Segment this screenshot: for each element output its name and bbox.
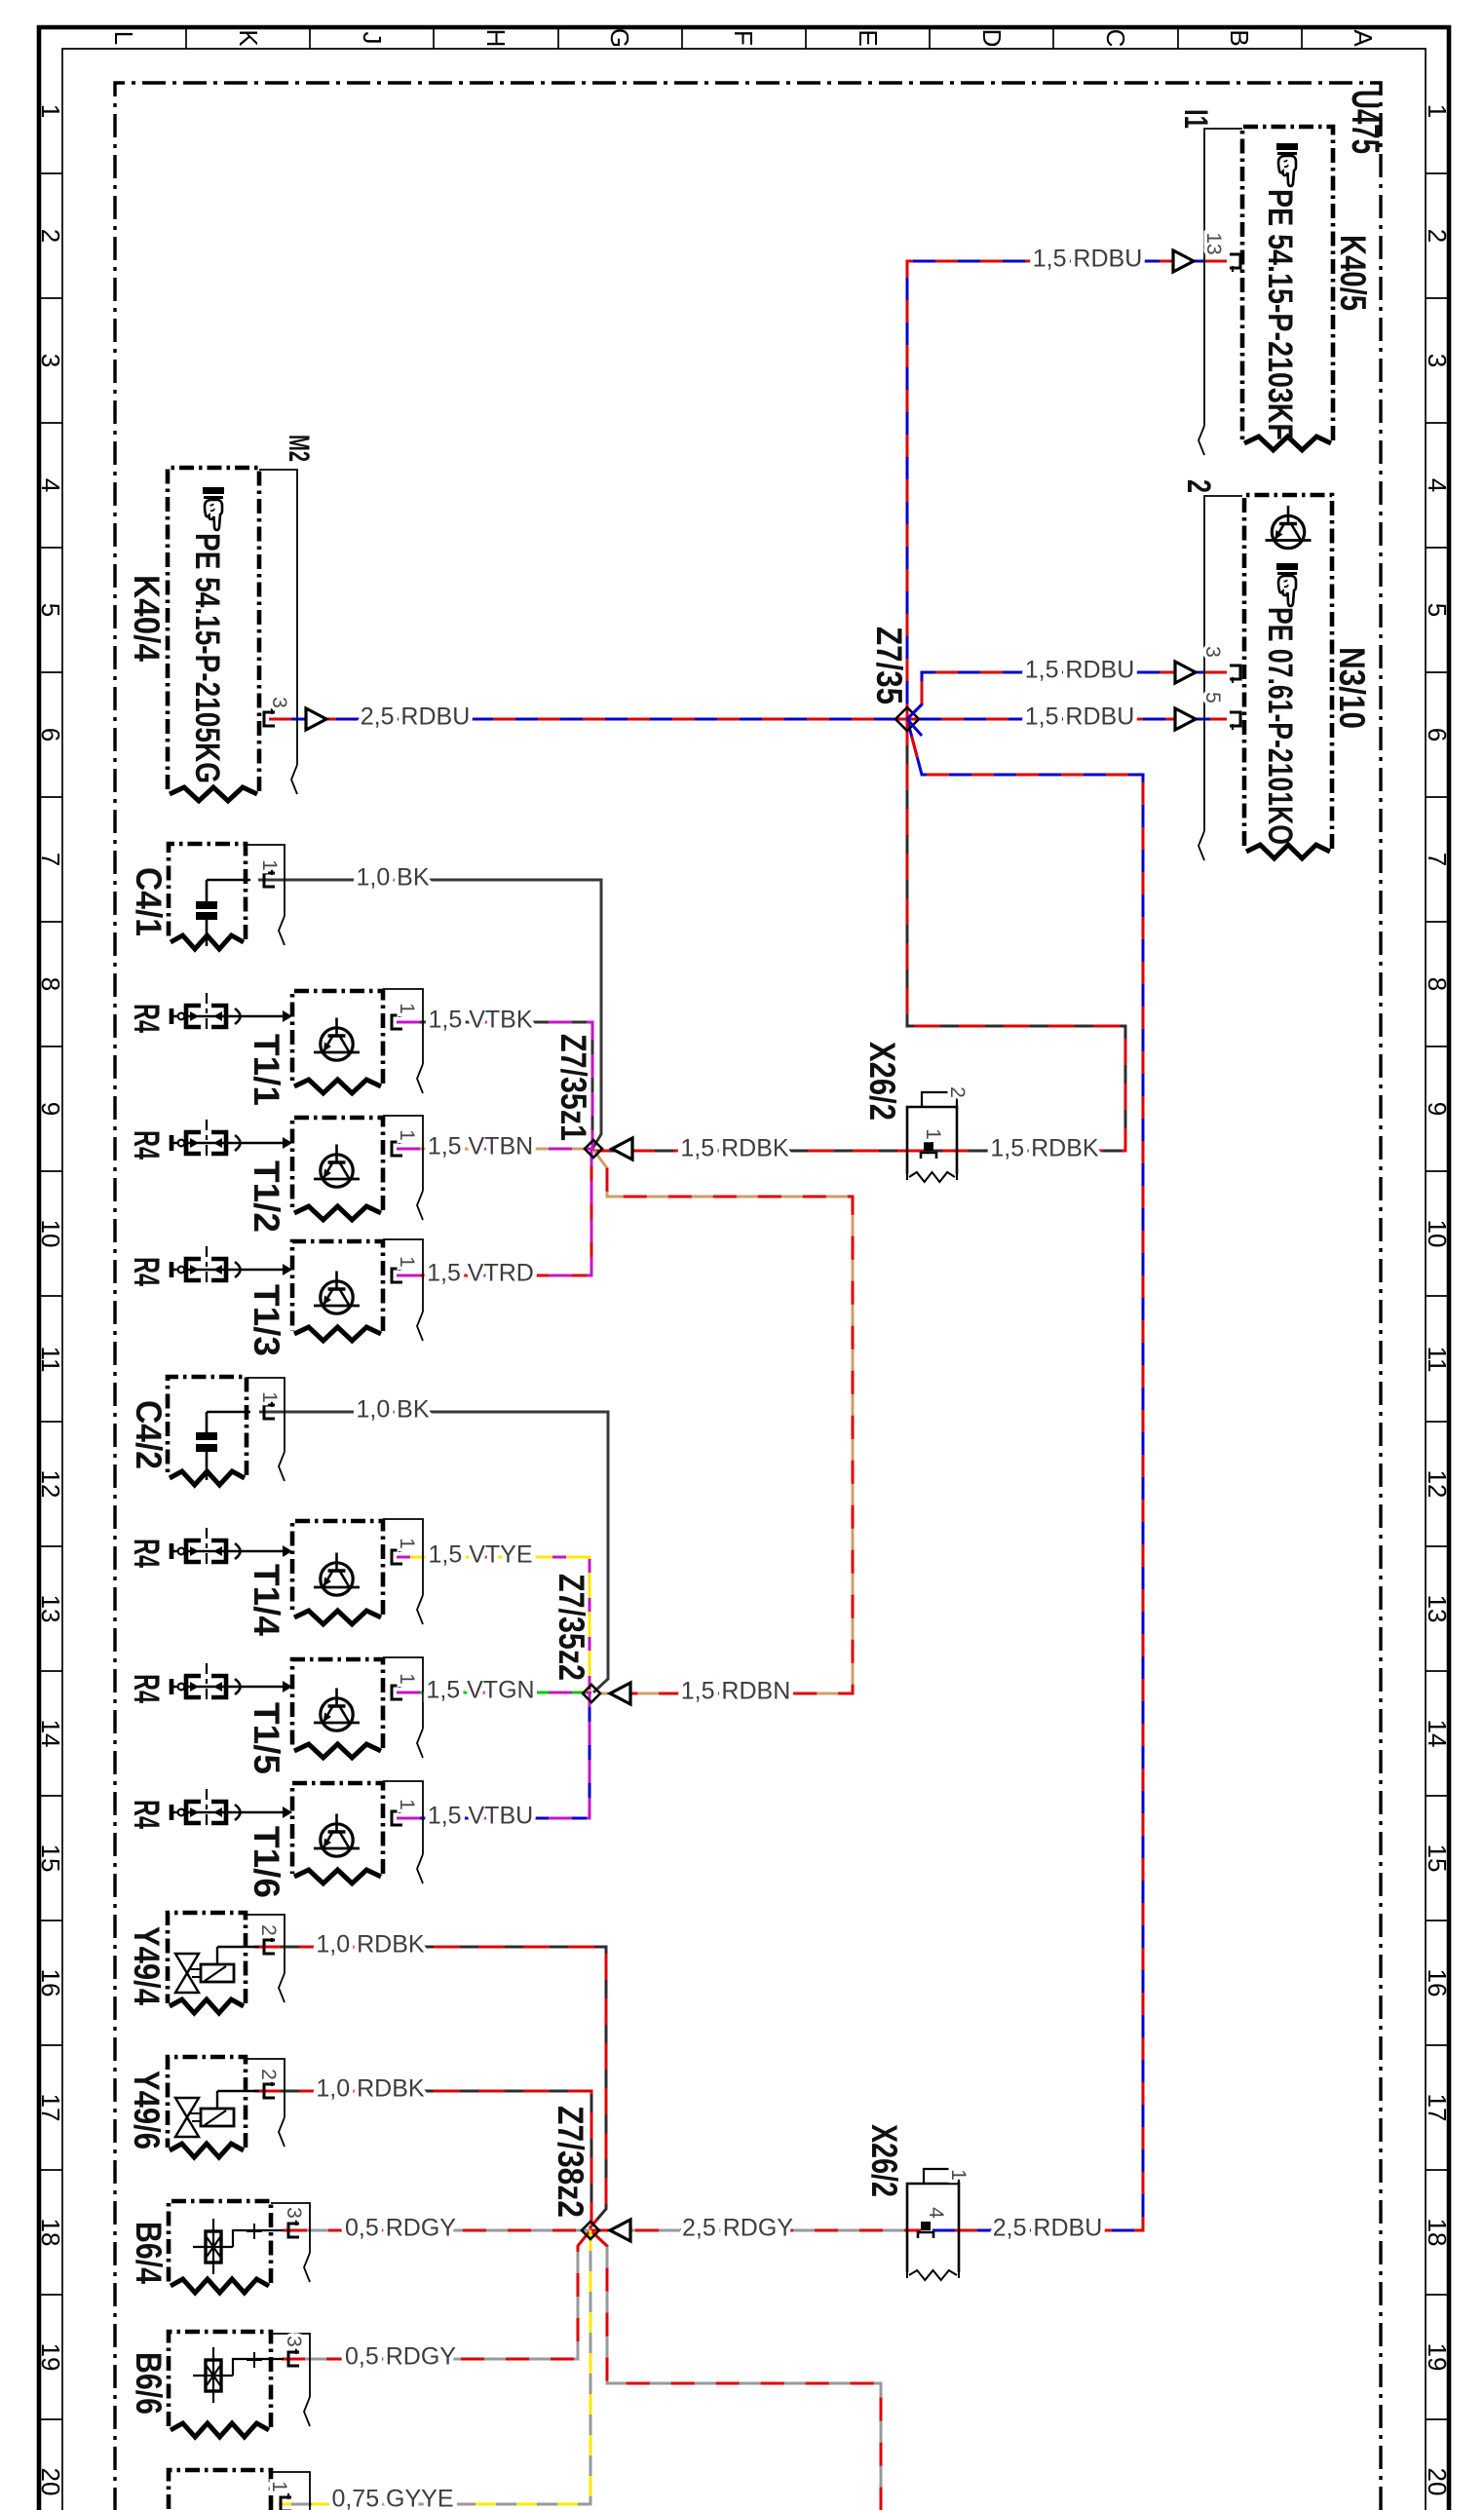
connector X26/2 (lower run) — [907, 2169, 959, 2272]
wire 1,5 RDBU K40/5 pin13 to Z7/35 — [907, 261, 1227, 719]
svg-text:14: 14 — [36, 1720, 65, 1748]
wire 0,5 RDGY B6/6 to Z7/38z2 — [282, 2231, 590, 2359]
wire 1,0 RDBK Y49/6 to Z7/38z2 — [254, 2091, 591, 2224]
svg-text:G: G — [605, 28, 634, 48]
svg-text:PE 54.15-P-2103KF: PE 54.15-P-2103KF — [1261, 189, 1299, 440]
wire 1,5 RDBU Z7/35 to N3/10 pin3 — [907, 672, 1227, 719]
svg-text:6: 6 — [36, 728, 65, 742]
hand icon K40/5 — [1276, 143, 1298, 186]
svg-text:1,5 VTGN: 1,5 VTGN — [426, 1677, 534, 1704]
hand icon K40/4 — [203, 487, 224, 530]
wire 1,5 VTBU T1/6 to Z7/35z2 — [397, 1693, 590, 1818]
svg-text:Z7/35: Z7/35 — [869, 627, 909, 704]
svg-text:11: 11 — [1423, 1347, 1452, 1373]
svg-text:1,0 BK: 1,0 BK — [356, 1396, 429, 1424]
control unit N3/10 box — [1244, 495, 1332, 858]
T1/6 connector bar — [383, 1781, 423, 1883]
svg-text:7: 7 — [1423, 853, 1452, 866]
C4/2 connector bar — [247, 1378, 285, 1481]
svg-text:I1: I1 — [1177, 109, 1214, 129]
wire 1,0 RDBK Y49/4 to Z7/38z2 — [254, 1947, 606, 2228]
pin 1 T1/3 — [392, 1265, 402, 1282]
Z7/35 branch stubs — [907, 704, 922, 736]
svg-text:11: 11 — [36, 1347, 65, 1373]
ignition coil T1/5 box — [292, 1659, 383, 1758]
capacitor symbol C4/1 — [196, 880, 250, 946]
connector X26/2 (upper run) — [907, 1092, 957, 1174]
partial component box at page edge — [169, 2470, 310, 2510]
svg-text:X26/2: X26/2 — [864, 2124, 904, 2197]
svg-text:R4: R4 — [127, 1257, 167, 1286]
svg-text:1,5 RDBU: 1,5 RDBU — [1033, 246, 1143, 273]
svg-text:3: 3 — [1423, 354, 1452, 367]
pin 3 K40/4 — [264, 708, 275, 726]
svg-text:4: 4 — [36, 478, 65, 492]
svg-text:2,5 RDGY: 2,5 RDGY — [682, 2215, 793, 2242]
svg-text:3: 3 — [36, 354, 65, 367]
svg-text:1,5 VTBK: 1,5 VTBK — [429, 1007, 533, 1034]
capacitor symbol C4/2 — [196, 1412, 250, 1480]
svg-text:1,5 RDBN: 1,5 RDBN — [681, 1678, 791, 1705]
svg-text:1,0 BK: 1,0 BK — [356, 864, 429, 892]
svg-text:X26/2: X26/2 — [862, 1042, 902, 1121]
svg-text:8: 8 — [1423, 977, 1452, 991]
coil electronics symbol T1/3 — [314, 1272, 360, 1314]
svg-text:1: 1 — [922, 1128, 944, 1140]
svg-text:2,5 RDBU: 2,5 RDBU — [993, 2215, 1103, 2242]
pin 3 B6/6 — [288, 2348, 299, 2366]
coil electronics symbol T1/1 — [314, 1018, 360, 1061]
svg-text:1,5 VTBN: 1,5 VTBN — [428, 1133, 533, 1160]
spark plug R4 at T1/5 — [171, 1663, 292, 1699]
svg-text:F: F — [729, 30, 758, 46]
K40/4 connector bar M2 — [259, 470, 297, 794]
splice Z7/35z2 — [583, 1685, 600, 1702]
pin 1 T1/5 — [392, 1682, 402, 1699]
svg-text:9: 9 — [36, 1102, 65, 1116]
arrow above Z7/38z2 — [610, 2220, 630, 2241]
svg-text:1: 1 — [396, 1129, 418, 1141]
pin 3 N3/10 — [1230, 666, 1240, 683]
svg-text:R4: R4 — [127, 1800, 167, 1829]
pin 1 T1/6 — [392, 1807, 402, 1825]
sensor symbol B6/4 — [193, 2219, 284, 2274]
Y49/6 connector bar — [246, 2059, 285, 2147]
svg-text:0,5 RDGY: 0,5 RDGY — [345, 2343, 456, 2371]
svg-text:4: 4 — [925, 2207, 947, 2219]
svg-text:19: 19 — [36, 2343, 65, 2372]
svg-text:2: 2 — [257, 2069, 280, 2080]
svg-text:T1/1: T1/1 — [247, 1034, 286, 1106]
C4/1 connector bar — [246, 845, 285, 945]
splice Z7/35z1 — [585, 1140, 602, 1158]
pin 2 Y49/4 — [264, 1936, 275, 1954]
Y49/4 connector bar — [246, 1915, 285, 2002]
arrow on N3/10 pin5 wire — [1175, 708, 1196, 730]
wire 0,75 GYYE Z7/38z2 to bottom component — [279, 2230, 590, 2504]
svg-text:1,5 RDBU: 1,5 RDBU — [1025, 704, 1135, 731]
svg-text:1,5 VTBU: 1,5 VTBU — [428, 1803, 533, 1830]
wire 2,5 RDBU K40/4 pin3 to N3/10 pin5 — [269, 718, 1227, 721]
wire 1,5 RDBN Z7/35z2 to Z7/35z1 — [594, 1151, 853, 1693]
spark plug R4 at T1/2 — [171, 1120, 292, 1156]
svg-text:2: 2 — [36, 229, 65, 243]
coil electronics symbol T1/2 — [314, 1145, 360, 1188]
svg-text:16: 16 — [1423, 1969, 1452, 1997]
svg-text:Y49/6: Y49/6 — [127, 2071, 167, 2149]
svg-text:K: K — [234, 29, 263, 47]
svg-text:3: 3 — [268, 697, 290, 708]
svg-text:15: 15 — [1423, 1844, 1452, 1873]
svg-text:4: 4 — [1423, 478, 1452, 492]
svg-text:20: 20 — [1423, 2468, 1452, 2496]
solenoid valve Y49/4 box — [168, 1913, 246, 2013]
pin 1 C4/2 — [264, 1401, 275, 1419]
wire 1,5 VTGN T1/5 to Z7/35z2 — [397, 1692, 591, 1694]
svg-text:2: 2 — [946, 1086, 969, 1098]
svg-text:K40/5: K40/5 — [1333, 235, 1373, 311]
svg-text:5: 5 — [36, 603, 65, 617]
svg-text:L: L — [109, 31, 138, 45]
svg-text:0,5 RDGY: 0,5 RDGY — [345, 2215, 456, 2242]
wire 2,5 RDGY Z7/38z2 to page edge — [590, 2230, 881, 2510]
svg-text:20: 20 — [36, 2468, 65, 2496]
T1/1 connector bar — [383, 989, 423, 1093]
svg-text:B6/4: B6/4 — [129, 2222, 169, 2284]
svg-text:1: 1 — [258, 859, 281, 871]
svg-text:1,5 VTYE: 1,5 VTYE — [429, 1541, 533, 1569]
arrow above Z7/35z1 — [612, 1138, 632, 1160]
svg-text:1,5 RDBK: 1,5 RDBK — [680, 1135, 788, 1162]
pin 1 X26/2 (upper) — [921, 1142, 936, 1159]
pin 1 T1/1 — [392, 1011, 402, 1029]
B6/6 connector bar — [271, 2334, 310, 2426]
svg-text:J: J — [358, 32, 387, 45]
svg-text:10: 10 — [1423, 1220, 1452, 1248]
svg-text:A: A — [1349, 29, 1378, 47]
pin 5 N3/10 — [1230, 712, 1240, 730]
svg-text:3: 3 — [283, 2336, 305, 2347]
svg-text:Z7/38z2: Z7/38z2 — [551, 2106, 590, 2218]
B6/4 connector bar — [271, 2203, 310, 2282]
svg-text:17: 17 — [1423, 2094, 1452, 2122]
svg-text:1,5 RDBU: 1,5 RDBU — [1025, 657, 1135, 684]
ignition coil T1/4 box — [292, 1521, 383, 1624]
svg-text:1: 1 — [396, 1256, 418, 1268]
coil electronics symbol T1/6 — [314, 1814, 360, 1857]
svg-text:12: 12 — [36, 1470, 65, 1499]
svg-text:T1/2: T1/2 — [247, 1160, 286, 1233]
ignition coil T1/6 box — [292, 1783, 383, 1883]
K40/5 connector bar I1 — [1199, 129, 1242, 455]
pin 1 T1/4 — [392, 1546, 402, 1564]
wire 2,5 RDBU Z7/35 to X26/2 pin4 — [907, 719, 1143, 2230]
svg-text:1: 1 — [268, 2481, 290, 2492]
svg-text:1: 1 — [396, 1538, 418, 1549]
svg-text:13: 13 — [36, 1595, 65, 1623]
svg-text:1: 1 — [396, 1003, 418, 1014]
svg-text:C: C — [1101, 29, 1130, 48]
svg-text:R4: R4 — [127, 1539, 167, 1568]
svg-text:T1/3: T1/3 — [247, 1284, 286, 1356]
pin 3 B6/4 — [288, 2220, 299, 2237]
svg-text:16: 16 — [36, 1969, 65, 1997]
pin 2 Y49/6 — [264, 2080, 275, 2098]
svg-text:6: 6 — [1423, 728, 1452, 742]
svg-text:2: 2 — [257, 1924, 280, 1936]
svg-text:N3/10: N3/10 — [1332, 647, 1372, 729]
svg-text:T1/5: T1/5 — [247, 1702, 286, 1774]
svg-text:13: 13 — [1423, 1595, 1452, 1623]
arrow on K40/4 pin3 wire — [306, 708, 326, 730]
spark plug R4 at T1/1 — [171, 993, 292, 1029]
svg-text:C4/2: C4/2 — [129, 1400, 169, 1469]
pin 1 T1/2 — [392, 1138, 402, 1156]
pin 1 bottom component — [281, 2493, 291, 2510]
svg-text:5: 5 — [1423, 603, 1452, 617]
spark plug R4 at T1/4 — [171, 1528, 292, 1564]
ignition coil T1/2 box — [292, 1118, 383, 1220]
svg-text:2: 2 — [1180, 479, 1217, 493]
frame row letters — [109, 28, 1378, 48]
splice Z7/38z2 — [582, 2222, 599, 2239]
T1/3 connector bar — [383, 1239, 423, 1341]
spark plug R4 at T1/3 — [171, 1246, 292, 1282]
ignition coil T1/3 box — [292, 1241, 383, 1341]
svg-text:T1/6: T1/6 — [247, 1826, 286, 1898]
ignition coil T1/1 box — [292, 991, 383, 1093]
arrow above Z7/35z2 — [610, 1683, 630, 1704]
svg-text:C4/1: C4/1 — [129, 867, 169, 936]
arrow on N3/10 pin3 wire — [1175, 662, 1196, 683]
control unit K40/5 box — [1242, 127, 1333, 450]
svg-text:2,5 RDBU: 2,5 RDBU — [361, 704, 471, 731]
svg-text:E: E — [854, 29, 883, 46]
svg-text:13: 13 — [1202, 232, 1225, 254]
svg-text:U475: U475 — [1344, 90, 1387, 154]
svg-text:19: 19 — [1423, 2343, 1452, 2372]
svg-text:R4: R4 — [127, 1674, 167, 1703]
pin 13 K40/5 — [1230, 254, 1240, 272]
solenoid valve Y49/6 box — [168, 2057, 246, 2157]
svg-text:1: 1 — [947, 2169, 970, 2181]
svg-text:PE 07.61-P-2101KO: PE 07.61-P-2101KO — [1261, 607, 1299, 845]
svg-text:15: 15 — [36, 1844, 65, 1873]
wire 2,5 RDGY Z7/38z2 to X26/2 pin4 — [590, 2229, 921, 2232]
arrow on K40/5 pin13 wire — [1173, 250, 1194, 272]
svg-text:H: H — [481, 29, 511, 48]
coil electronics symbol T1/5 — [314, 1689, 360, 1731]
sensor symbol B6/6 — [193, 2347, 284, 2403]
svg-text:2: 2 — [1423, 229, 1452, 243]
svg-text:3: 3 — [283, 2207, 305, 2219]
svg-text:8: 8 — [36, 977, 65, 991]
svg-text:K40/4: K40/4 — [127, 575, 167, 662]
svg-text:PE 54.15-P-2105KG: PE 54.15-P-2105KG — [188, 533, 226, 783]
T1/5 connector bar — [383, 1657, 423, 1758]
capacitor unit C4/2 box — [168, 1377, 247, 1485]
svg-text:R4: R4 — [127, 1004, 167, 1033]
wire 1,5 RDBK Z7/35 to X26/2 pin1 to Z7/35z1 — [593, 719, 1125, 1151]
svg-text:D: D — [977, 29, 1007, 48]
svg-text:Z7/35z1: Z7/35z1 — [553, 1034, 593, 1141]
ignition output stage symbol N3/10 — [1266, 506, 1312, 549]
svg-text:1,0 RDBK: 1,0 RDBK — [316, 2075, 424, 2103]
svg-text:5: 5 — [1201, 692, 1224, 704]
svg-text:Z7/35z2: Z7/35z2 — [552, 1574, 591, 1681]
svg-text:R4: R4 — [127, 1130, 167, 1160]
svg-text:0,75 GYYE: 0,75 GYYE — [331, 2486, 453, 2510]
svg-text:1: 1 — [1423, 104, 1452, 118]
svg-text:1: 1 — [396, 1673, 418, 1685]
T1/4 connector bar — [383, 1519, 423, 1624]
wire 1,5 VTBN T1/2 to Z7/35z1 — [397, 1148, 593, 1151]
svg-text:Y49/4: Y49/4 — [127, 1926, 167, 2005]
svg-text:12: 12 — [1423, 1470, 1452, 1499]
svg-text:18: 18 — [36, 2219, 65, 2247]
svg-text:14: 14 — [1423, 1720, 1452, 1748]
svg-text:1,5 VTRD: 1,5 VTRD — [427, 1260, 534, 1287]
svg-text:7: 7 — [36, 853, 65, 866]
wire 1,5 VTBK T1/1 to Z7/35z1 — [397, 1022, 592, 1149]
svg-text:1,0 RDBK: 1,0 RDBK — [316, 1931, 424, 1959]
splice Z7/35 — [895, 707, 919, 731]
svg-text:1,5 RDBK: 1,5 RDBK — [990, 1135, 1098, 1162]
svg-text:10: 10 — [36, 1220, 65, 1248]
sensor B6/4 box — [169, 2201, 271, 2293]
capacitor unit C4/1 box — [169, 844, 246, 949]
svg-text:1: 1 — [258, 1391, 281, 1403]
svg-text:18: 18 — [1423, 2219, 1452, 2247]
coil electronics symbol T1/4 — [314, 1553, 360, 1596]
control unit K40/4 box — [168, 468, 259, 801]
svg-text:3: 3 — [1201, 646, 1224, 658]
svg-text:B: B — [1225, 29, 1254, 46]
valve symbol Y49/4 — [175, 1947, 259, 1993]
svg-text:9: 9 — [1423, 1102, 1452, 1116]
svg-text:T1/4: T1/4 — [247, 1564, 286, 1636]
N3/10 connector bar — [1199, 496, 1242, 860]
wire 1,5 VTRD T1/3 to Z7/35z1 — [397, 1149, 591, 1275]
wire 1,0 BK C4/2 to Z7/35z2 — [259, 1412, 608, 1692]
wire 1,0 BK C4/1 to Z7/35z1 — [258, 880, 601, 1149]
svg-text:17: 17 — [36, 2094, 65, 2122]
hand icon N3/10 — [1276, 563, 1298, 606]
svg-text:M2: M2 — [283, 435, 315, 462]
svg-text:B6/6: B6/6 — [129, 2352, 169, 2415]
spark plug R4 at T1/6 — [171, 1789, 292, 1825]
valve symbol Y49/6 — [175, 2091, 259, 2137]
pin 4 X26/2 (lower) — [918, 2222, 933, 2238]
pin 1 C4/1 — [264, 869, 275, 887]
T1/2 connector bar — [383, 1116, 423, 1220]
sensor B6/6 box — [169, 2332, 271, 2437]
svg-text:1: 1 — [396, 1799, 418, 1810]
wire 1,5 VTYE T1/4 to Z7/35z2 — [397, 1557, 590, 1693]
wire 0,5 RDGY B6/4 to Z7/38z2 — [284, 2229, 590, 2232]
svg-text:1: 1 — [36, 104, 65, 118]
